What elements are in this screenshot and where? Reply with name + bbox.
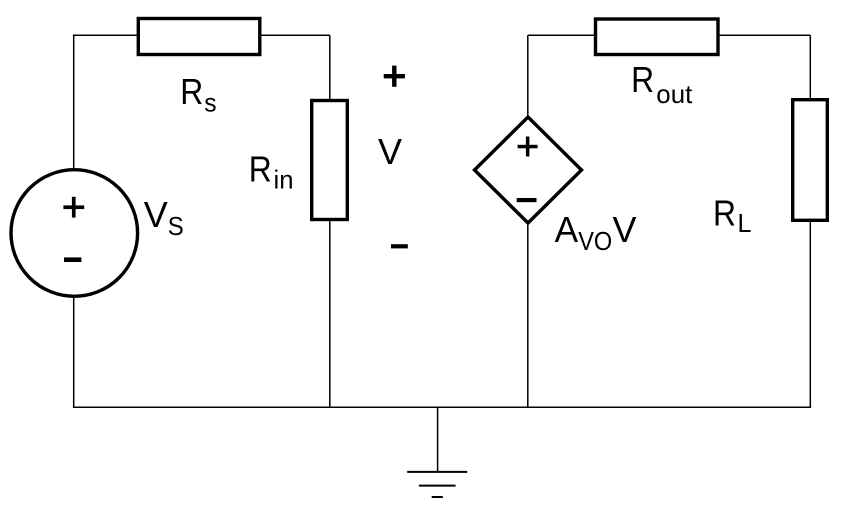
wire top rail left (to Rs left terminal) [73, 34, 139, 36]
svg-text:V: V [378, 131, 402, 172]
wire Rs right to input node corner [260, 34, 330, 36]
svg-text:s: s [204, 87, 216, 117]
svg-text:S: S [168, 211, 184, 241]
resistor Rs [138, 19, 259, 55]
svg-text:R: R [180, 71, 203, 112]
wire diamond bottom to bottom rail [527, 222, 529, 407]
plus sign inside diamond [518, 137, 538, 157]
value label RL [713, 192, 752, 238]
wire dependent source top to top rail [527, 35, 529, 118]
wire Rout right to output corner [718, 34, 811, 36]
resistor Rin [312, 101, 348, 220]
svg-text:in: in [274, 165, 294, 195]
svg-text:R: R [713, 192, 736, 233]
wire RL bottom to bottom rail [809, 219, 811, 408]
value label VS [144, 194, 184, 241]
plus sign inside VS [63, 197, 84, 218]
value label Rs [180, 71, 216, 118]
ground [407, 472, 467, 497]
value label Rout [631, 59, 693, 109]
wire VS bottom to bottom rail [73, 297, 75, 408]
svg-text:R: R [249, 149, 272, 190]
resistor RL [793, 100, 828, 221]
minus sign inside diamond [517, 198, 537, 202]
svg-text:V: V [613, 209, 637, 250]
minus sign of voltage V [391, 244, 408, 248]
wire Rin bottom to bottom rail [329, 219, 331, 407]
wire input node down to Rin top [329, 35, 331, 101]
svg-text:A: A [555, 209, 579, 250]
svg-text:V: V [144, 194, 168, 235]
minus sign inside VS [64, 257, 81, 262]
dependent source diamond E1 [475, 117, 582, 223]
svg-text:R: R [631, 59, 654, 100]
resistor Rout [596, 19, 719, 55]
wire output corner down to RL top [809, 35, 811, 100]
value label Rin [249, 149, 294, 195]
svg-text:L: L [738, 208, 752, 238]
wire top-left vertical (source top to top rail) [73, 35, 75, 169]
voltage source VS [11, 170, 138, 297]
plus sign of voltage V [384, 66, 405, 87]
svg-text:VO: VO [578, 226, 612, 256]
value label AvoV [555, 209, 637, 256]
wire bottom rail [73, 406, 811, 408]
wire top rail (diamond to Rout left) [528, 34, 596, 36]
svg-text:out: out [656, 79, 693, 109]
wire ground stem [437, 407, 439, 472]
